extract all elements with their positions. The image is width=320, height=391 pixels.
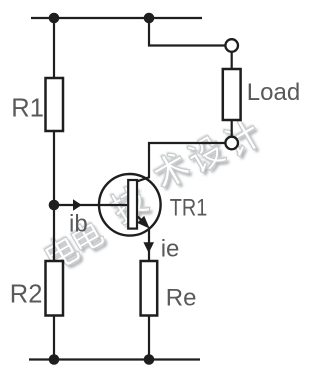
transistor base bar	[128, 180, 137, 229]
watermark char 计	[220, 116, 264, 160]
resistor Load	[223, 69, 241, 120]
top rail wire	[31, 17, 202, 19]
junction dot (bottom rail left)	[49, 354, 60, 365]
svg-text:R1: R1	[11, 95, 44, 123]
svg-text:R2: R2	[10, 281, 43, 309]
svg-text:ie: ie	[161, 236, 180, 263]
watermark text white core	[42, 116, 264, 272]
collector wire from Load bottom terminal	[138, 143, 226, 181]
ie arrowhead	[143, 242, 154, 253]
svg-text:ib: ib	[69, 211, 88, 238]
resistor R2	[46, 261, 64, 316]
watermark shadow lower-right	[45, 119, 267, 275]
base wire	[54, 204, 127, 206]
resistor Re	[141, 261, 158, 316]
watermark char 技	[106, 182, 151, 227]
junction dot (top rail right)	[144, 13, 155, 24]
junction dot (base node)	[49, 200, 60, 211]
emitter wire down to Re	[148, 229, 150, 261]
watermark char 设	[184, 132, 228, 176]
open terminal circle (Load top)	[225, 39, 238, 52]
watermark char 电 (1st)	[42, 231, 82, 272]
emitter wire diagonal	[138, 217, 145, 224]
bottom rail wire	[29, 358, 200, 360]
svg-text:Load: Load	[247, 79, 300, 106]
emitter arrowhead	[137, 216, 150, 229]
junction dot (bottom rail right)	[144, 354, 155, 365]
wire Load to bottom terminal	[231, 120, 233, 137]
wire terminal to Load	[231, 52, 233, 69]
transistor TR1 circle	[99, 174, 161, 236]
watermark char 电 (2nd)	[69, 217, 106, 255]
base current arrowhead	[73, 199, 82, 211]
svg-text:Re: Re	[166, 285, 197, 312]
wire from top rail to Load top terminal	[149, 18, 225, 46]
wire Re to bottom rail	[148, 316, 150, 360]
junction dot (top rail left)	[49, 13, 60, 24]
left branch wire (R1/R2 column)	[53, 18, 55, 360]
svg-text:TR1: TR1	[170, 195, 208, 222]
watermark char 术	[148, 148, 193, 193]
watermark shadow upper-left	[40, 115, 262, 271]
open terminal circle (Load bottom)	[225, 137, 238, 150]
resistor R1	[46, 78, 64, 131]
